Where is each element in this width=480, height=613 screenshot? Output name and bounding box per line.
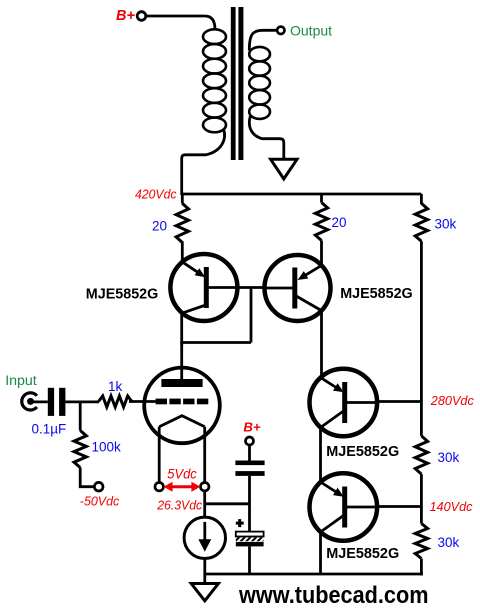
wire cathode right leg to current source: [203, 491, 206, 519]
capacitor C2: [235, 461, 264, 466]
svg-text:1k: 1k: [108, 379, 123, 394]
wire Q4 base to right rail (140Vdc node): [345, 505, 421, 508]
wire cathode node to cap node: [205, 502, 250, 505]
transformer T1 secondary winding: [249, 47, 270, 119]
wire secondary top to Output terminal: [249, 30, 276, 50]
wire rail to R 20 middle: [320, 194, 323, 203]
wire current source to ground: [203, 559, 206, 584]
capacitor C1 0.1uF: [48, 388, 54, 416]
svg-text:30k: 30k: [438, 535, 460, 550]
svg-text:MJE5852G: MJE5852G: [86, 285, 159, 302]
svg-text:100k: 100k: [92, 440, 122, 455]
wire primary bottom to rail: [182, 129, 225, 195]
ground (main): [191, 584, 218, 601]
transistor Q3 MJE5852G (cascode upper): [310, 369, 380, 437]
wire right rail segment 1: [420, 194, 423, 204]
wire B+ to C2: [248, 445, 251, 461]
wire Q3 base to right rail (280Vdc node): [345, 400, 421, 403]
transformer T1 primary winding: [203, 29, 226, 132]
svg-text:www.tubecad.com: www.tubecad.com: [238, 582, 428, 609]
svg-text:5Vdc: 5Vdc: [167, 465, 197, 481]
resistor 30k top: [415, 203, 427, 241]
wire B+ to primary top: [146, 16, 216, 30]
svg-text:MJE5852G: MJE5852G: [340, 285, 413, 302]
resistor 30k middle: [415, 436, 427, 474]
wire right rail segment 3: [420, 474, 423, 523]
wire mirror junction vertical: [250, 288, 253, 343]
tube plate: [161, 379, 202, 387]
wire jack to C1: [31, 400, 48, 403]
plus sign of electrolytic C3: [236, 522, 244, 525]
svg-text:-50Vdc: -50Vdc: [80, 494, 120, 509]
svg-text:Input: Input: [5, 373, 37, 389]
transistor Q4 MJE5852G (cascode lower): [310, 473, 380, 541]
tube V1 triode envelope: [144, 368, 220, 444]
wire tube plate lead: [180, 341, 183, 380]
wire secondary bottom to ground: [249, 116, 283, 160]
terminal cathode left: [155, 483, 163, 491]
svg-text:Output: Output: [290, 22, 332, 38]
terminal B+ bottom: [246, 437, 254, 445]
tube grid (dashed): [156, 399, 167, 405]
5Vdc measurement arrow: [169, 485, 195, 488]
terminal Output: [277, 27, 284, 34]
wire cathode leg right: [203, 427, 206, 483]
svg-text:140Vdc: 140Vdc: [430, 499, 473, 514]
tube filament/cathode: [159, 416, 205, 427]
svg-text:0.1µF: 0.1µF: [32, 422, 67, 437]
svg-text:MJE5852G: MJE5852G: [326, 443, 399, 460]
wire C2 to C3: [248, 476, 251, 532]
wire Q4 collector to ground rail: [319, 531, 322, 575]
svg-text:280Vdc: 280Vdc: [430, 393, 474, 408]
resistor 20 left: [176, 203, 188, 242]
input RCA jack: [22, 393, 37, 410]
resistor 1k: [99, 396, 132, 407]
svg-text:20: 20: [332, 215, 347, 230]
wire junction down to R 100k: [79, 402, 82, 431]
wire grid lead into tube: [129, 400, 156, 403]
svg-text:30k: 30k: [435, 217, 457, 232]
resistor 20 middle: [315, 203, 327, 241]
wire Q1 collector to tube plate: [180, 312, 183, 346]
svg-text:30k: 30k: [438, 450, 460, 465]
transformer core: [231, 7, 236, 160]
resistor 100k: [74, 431, 86, 468]
wire mirror junction horizontal: [182, 341, 251, 344]
wire right rail segment 2: [420, 241, 423, 436]
svg-text:MJE5852G: MJE5852G: [326, 545, 399, 562]
wire bottom ground rail: [205, 573, 423, 576]
svg-text:420Vdc: 420Vdc: [135, 187, 177, 202]
current source I1: [184, 517, 225, 558]
transistor Q2 MJE5852G (mirror output): [263, 255, 331, 321]
wire rail to R 20 left: [181, 194, 184, 203]
ground (transformer secondary): [271, 159, 297, 179]
wire 420Vdc rail: [182, 193, 422, 196]
terminal B+ top: [137, 12, 146, 21]
wire 100k to -50Vdc terminal: [80, 468, 94, 487]
terminal -50Vdc: [94, 482, 103, 491]
resistor 30k bottom: [415, 524, 427, 559]
wire R20 to Q2 emitter: [320, 241, 323, 267]
wire cathode leg left: [158, 427, 161, 483]
wire C3 to ground rail: [248, 546, 251, 574]
svg-text:26.3Vdc: 26.3Vdc: [156, 497, 202, 512]
svg-text:20: 20: [152, 219, 167, 234]
wire R20 to Q1 emitter: [181, 241, 184, 263]
terminal cathode right: [201, 483, 209, 491]
svg-text:B+: B+: [116, 8, 135, 24]
wire right rail segment 4: [420, 559, 423, 576]
svg-text:B+: B+: [243, 420, 261, 435]
wire Q2 collector down to Q3 emitter: [320, 309, 323, 379]
wire Q1 base to Q2 base: [206, 286, 295, 289]
wire Q3 collector down to Q4 emitter: [319, 426, 322, 484]
transistor Q1 MJE5852G (mirror, diode-connected): [170, 254, 239, 321]
wire C1 to R 1k: [65, 400, 99, 403]
